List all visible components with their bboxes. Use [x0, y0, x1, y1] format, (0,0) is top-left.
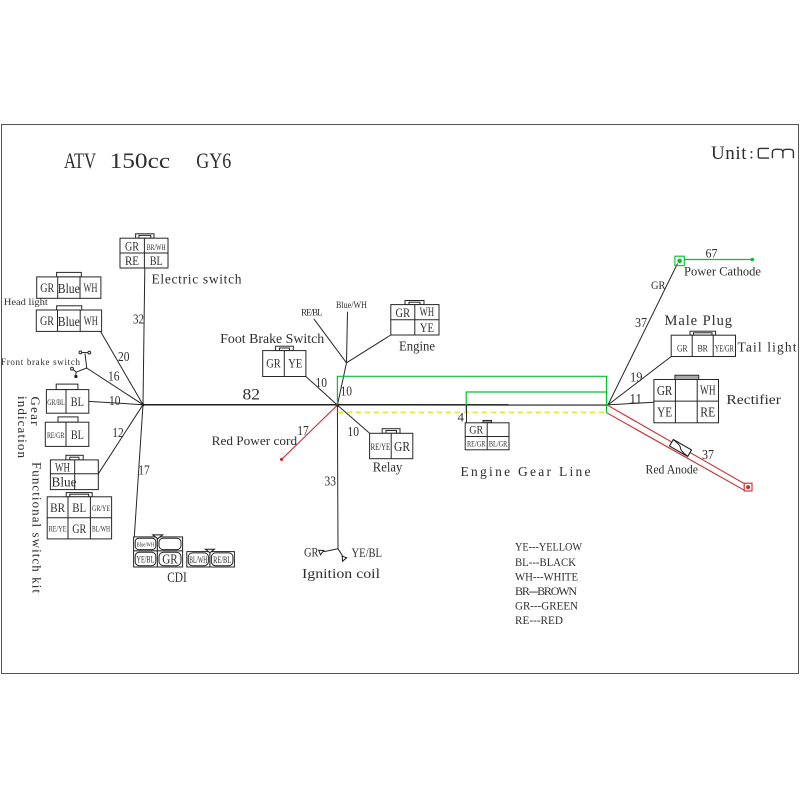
svg-text:RE: RE	[700, 405, 715, 420]
connector Head light 1	[37, 272, 101, 298]
svg-text:11: 11	[630, 391, 643, 406]
svg-text:WH: WH	[420, 304, 435, 319]
svg-text:RE/YE: RE/YE	[49, 524, 67, 534]
svg-text:19: 19	[630, 370, 643, 385]
svg-text:12: 12	[112, 425, 124, 440]
wire red anode lower	[607, 413, 744, 490]
svg-text:WH: WH	[84, 313, 98, 328]
legend	[515, 540, 583, 628]
connector Gear indication 1	[46, 384, 88, 413]
svg-text:RE/YE: RE/YE	[371, 443, 391, 453]
svg-text:GR/BL: GR/BL	[47, 397, 65, 407]
svg-text:GR/YE: GR/YE	[92, 503, 110, 513]
svg-text:GR: GR	[394, 440, 411, 455]
svg-text:BR: BR	[50, 500, 65, 515]
svg-text:Blue: Blue	[58, 315, 80, 330]
svg-text:32: 32	[133, 312, 144, 327]
connector Foot Brake Switch	[263, 346, 306, 376]
wire 17 CDI	[134, 405, 143, 537]
connector Head light 2	[36, 306, 101, 332]
connector Engine	[391, 301, 439, 336]
svg-text:17: 17	[297, 423, 309, 438]
svg-text:WH---WHITE: WH---WHITE	[515, 570, 578, 584]
svg-text:WH: WH	[55, 460, 70, 475]
svg-text:4: 4	[458, 410, 465, 425]
svg-text:10: 10	[348, 424, 360, 439]
connector Engine Gear Line	[465, 420, 509, 449]
connector CDI main	[134, 535, 183, 567]
node central hub	[336, 403, 339, 406]
connector Gear indication 2	[45, 417, 89, 447]
svg-text:BL: BL	[72, 500, 86, 515]
svg-text:Male Plug: Male Plug	[665, 313, 733, 329]
svg-text:Electric switch: Electric switch	[152, 272, 242, 287]
connector WH Blue box	[50, 455, 98, 490]
svg-text:RE/GR: RE/GR	[47, 430, 65, 440]
svg-text::: :	[749, 145, 753, 162]
svg-text:Engine: Engine	[399, 339, 435, 354]
svg-text:YE/BL: YE/BL	[352, 545, 383, 560]
svg-text:10: 10	[109, 393, 121, 408]
green wire rect 1	[337, 376, 606, 413]
svg-text:Blue/WH: Blue/WH	[336, 300, 367, 310]
wire 11 rectifier	[608, 402, 654, 405]
svg-text:BL/GR: BL/GR	[489, 438, 508, 448]
svg-text:Functional switch kit: Functional switch kit	[30, 462, 45, 593]
svg-text:Blue: Blue	[58, 282, 80, 297]
anode connector symbol	[670, 439, 692, 456]
wire relay	[337, 405, 369, 433]
svg-text:BR/WH: BR/WH	[147, 242, 166, 252]
yellow dashed wire	[338, 411, 607, 413]
svg-text:67: 67	[706, 246, 718, 261]
svg-text:RE/BL: RE/BL	[301, 307, 323, 317]
svg-text:16: 16	[108, 369, 120, 384]
svg-text:Red Anode: Red Anode	[646, 461, 699, 476]
svg-text:Head light: Head light	[4, 298, 48, 308]
svg-text:RE/BL: RE/BL	[213, 556, 231, 566]
wire 19 male plug	[608, 357, 671, 405]
connector Rectifier	[654, 375, 719, 423]
svg-text:20: 20	[118, 349, 130, 364]
svg-text:GR: GR	[396, 305, 411, 320]
wire red anode upper	[609, 406, 745, 484]
title	[64, 148, 231, 173]
svg-text:GR: GR	[677, 344, 688, 354]
svg-text:Front brake switch: Front brake switch	[1, 357, 81, 367]
svg-text:Blue/WH: Blue/WH	[137, 542, 155, 549]
wire RE/BL	[314, 319, 347, 363]
svg-text:Ignition coil: Ignition coil	[302, 566, 380, 581]
svg-text:GR: GR	[40, 313, 54, 328]
svg-text:YE---YELLOW: YE---YELLOW	[515, 540, 583, 554]
svg-text:WH: WH	[84, 280, 98, 295]
connector Male Plug	[671, 331, 735, 356]
wire Blue/WH	[347, 312, 348, 363]
svg-text:GR: GR	[162, 552, 178, 567]
svg-text:GR: GR	[304, 545, 319, 560]
svg-text:33: 33	[325, 474, 337, 489]
svg-text:GR: GR	[651, 278, 666, 292]
svg-text:GR: GR	[266, 356, 281, 371]
border frame	[2, 125, 799, 674]
main trunk wire 82	[143, 404, 608, 406]
svg-text:BR: BR	[697, 344, 708, 354]
svg-text:RE: RE	[125, 253, 139, 268]
svg-text:BL/WH: BL/WH	[92, 524, 110, 534]
wire 10 gear	[89, 401, 143, 404]
svg-text:YE: YE	[420, 320, 434, 335]
svg-text:BL---BLACK: BL---BLACK	[515, 555, 576, 569]
svg-text:YE/BL: YE/BL	[137, 556, 155, 566]
unit label	[711, 143, 793, 164]
ignition coil fork	[319, 549, 347, 561]
svg-text:10: 10	[316, 375, 328, 390]
svg-text:YE: YE	[288, 356, 302, 371]
svg-text:BR---BROWN: BR---BROWN	[515, 584, 577, 598]
svg-text:Relay: Relay	[373, 461, 403, 476]
svg-text:17: 17	[138, 463, 150, 478]
svg-text:Rectifier: Rectifier	[726, 392, 781, 407]
wire GR 37 power cathode	[608, 264, 678, 405]
svg-text:82: 82	[243, 387, 261, 404]
svg-text:Foot Brake Switch: Foot Brake Switch	[220, 331, 324, 346]
wire 16 front brake	[87, 368, 143, 405]
wire red power cord	[282, 405, 338, 459]
svg-text:indication: indication	[15, 396, 30, 459]
svg-text:Tail light: Tail light	[738, 340, 797, 355]
svg-text:CDI: CDI	[167, 570, 187, 586]
connector Functional switch kit	[47, 493, 111, 539]
svg-text:Unit: Unit	[711, 143, 747, 164]
wire 12	[98, 405, 143, 474]
svg-text:GR: GR	[469, 423, 483, 437]
svg-text:GR: GR	[40, 280, 54, 295]
wire to engine box	[347, 335, 391, 363]
svg-text:WH: WH	[700, 382, 716, 397]
front brake switch symbol	[71, 351, 91, 378]
svg-text:GR: GR	[72, 521, 86, 536]
wire 32 electric switch	[143, 268, 145, 405]
wire engine junction	[337, 363, 346, 405]
wire 10 foot brake	[306, 377, 338, 406]
svg-text:Power Cathode: Power Cathode	[684, 263, 761, 278]
red anode end symbol	[744, 483, 752, 491]
svg-text:RE---RED: RE---RED	[515, 613, 563, 627]
wire 20 head light	[101, 331, 144, 404]
svg-text:150cc: 150cc	[110, 148, 171, 173]
svg-text:BL: BL	[71, 427, 84, 442]
svg-text:GR: GR	[657, 383, 673, 398]
svg-text:Engine Gear Line: Engine Gear Line	[461, 464, 591, 479]
svg-text:37: 37	[635, 315, 647, 330]
wire ignition coil 33	[336, 405, 339, 549]
svg-text:Blue: Blue	[52, 475, 77, 490]
connector Electric switch	[120, 234, 168, 268]
wire engine gear line 4	[466, 405, 468, 423]
svg-text:10: 10	[341, 383, 353, 398]
green wire rect 2	[466, 392, 606, 413]
svg-text:BL/WH: BL/WH	[189, 556, 207, 566]
svg-text:GR---GREEN: GR---GREEN	[515, 599, 578, 613]
svg-text:GY6: GY6	[196, 148, 231, 173]
svg-text:GR: GR	[125, 239, 139, 254]
connector CDI secondary	[187, 549, 235, 567]
node left hub	[142, 403, 145, 406]
svg-text:ATV: ATV	[64, 148, 96, 173]
svg-text:Red Power cord: Red Power cord	[212, 433, 298, 448]
label Gear indication (vertical)	[15, 396, 43, 459]
svg-text:37: 37	[702, 447, 714, 462]
svg-text:BL: BL	[71, 394, 84, 409]
svg-text:BL: BL	[150, 253, 163, 268]
power cathode symbol	[675, 256, 754, 265]
svg-text:YE/GR: YE/GR	[715, 344, 734, 354]
svg-text:RE/GR: RE/GR	[467, 438, 486, 448]
svg-text:YE: YE	[657, 405, 672, 420]
connector Relay	[370, 429, 413, 459]
